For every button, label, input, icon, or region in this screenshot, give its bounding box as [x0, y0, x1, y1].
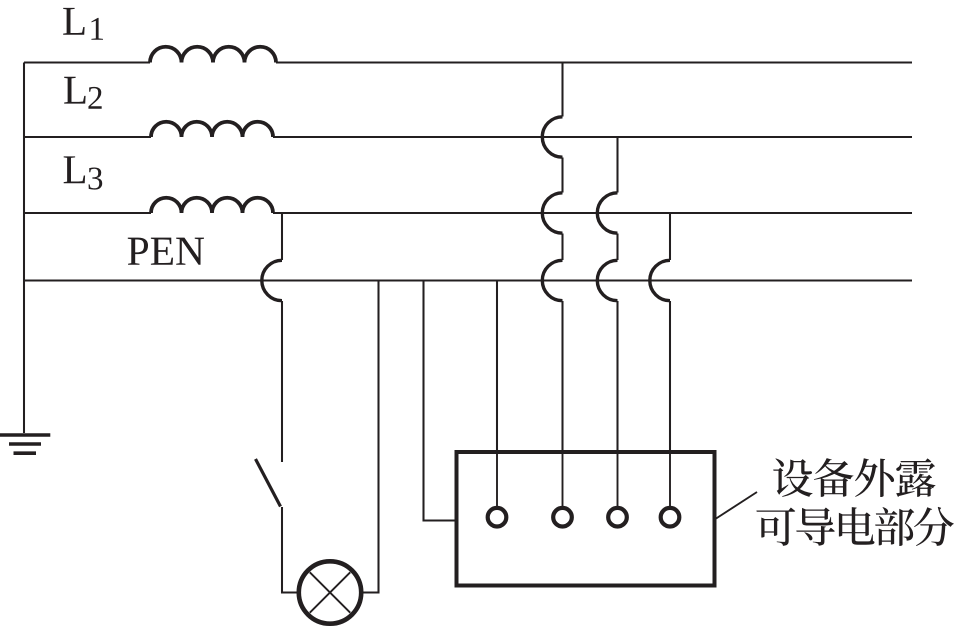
label text 设备外露 (equipment exposed) line 1 — [773, 458, 935, 497]
crossover hop T2 over L3 — [597, 193, 617, 233]
node label PEN — [128, 238, 204, 265]
wire tap T3 from L3 down to terminal 4 — [669, 213, 671, 506]
inductor coil on L2 — [151, 122, 273, 137]
left bus vertical wire — [23, 63, 25, 434]
wire tap T4 from PEN down to terminal 1 — [496, 281, 498, 507]
lamp E1 circle — [299, 561, 361, 623]
inductor coil on L3 — [151, 198, 273, 213]
ground symbol — [0, 435, 50, 453]
leader line to label — [713, 492, 757, 521]
wire tap T1 from L1 down to terminal 2 — [561, 63, 563, 507]
terminal 3 — [608, 508, 627, 527]
terminal 4 — [661, 508, 680, 527]
wire PEN tap to equipment box left entry — [424, 281, 457, 521]
wire L3 phase line — [24, 212, 912, 214]
wire into terminal 4 through box top — [669, 452, 671, 506]
crossover hop T3 over PEN — [650, 260, 670, 300]
crossover hop T1 over PEN — [542, 260, 562, 300]
wire L3 tap down to switch — [281, 213, 283, 462]
wire into terminal 3 through box top — [617, 452, 619, 506]
node label L3 — [64, 156, 103, 189]
wire switch bottom to lamp left side — [282, 507, 299, 593]
wire L1 phase line — [24, 61, 912, 63]
switch S1 blade — [256, 459, 281, 507]
node label L2 — [64, 77, 101, 109]
wire L2 phase line — [24, 136, 912, 138]
inductor coil on L1 — [150, 47, 276, 63]
terminal 1 — [488, 508, 507, 527]
wire into terminal 1 through box top — [496, 452, 498, 506]
label text 可导电部分 (conductive parts) line 2 — [756, 507, 953, 546]
crossover hop T1 over L3 — [542, 193, 562, 233]
crossover hop T1 over L2 — [542, 117, 562, 157]
node label L1 — [63, 8, 103, 40]
wire PEN tap to lamp right side — [362, 281, 379, 593]
wire tap T2 from L2 down to terminal 3 — [616, 137, 618, 506]
equipment box outline — [457, 452, 715, 586]
terminal 2 — [553, 508, 572, 527]
crossover hop T2 over PEN — [597, 260, 617, 300]
crossover hop L3-tap over PEN — [262, 260, 282, 300]
lamp E1 cross — [310, 572, 350, 612]
wire PEN line — [24, 279, 912, 281]
wire into terminal 2 through box top — [562, 452, 564, 506]
